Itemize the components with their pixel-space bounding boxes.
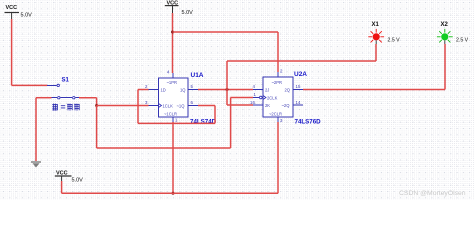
svg-text:U1A: U1A (191, 72, 204, 79)
flip-flop U1A 74LS74D (145, 70, 198, 123)
wire 1Q node down to 2K (226, 90, 228, 106)
pin 2 stub 1D (149, 89, 159, 91)
svg-text:15: 15 (296, 84, 301, 89)
wire 1Q node up (226, 61, 228, 90)
svg-text:2Q: 2Q (285, 87, 291, 92)
svg-text:2CLK: 2CLK (267, 95, 278, 100)
wire ~1Q feedback right (198, 105, 215, 107)
junction 1Q node (226, 88, 229, 91)
svg-text:5.0V: 5.0V (72, 178, 84, 184)
label key = space (CJK imitation strokes) (52, 104, 79, 111)
wire feedback into 1D (138, 89, 149, 91)
svg-text:1Q: 1Q (180, 87, 186, 92)
wire feedback down (214, 106, 216, 124)
svg-text:16: 16 (250, 100, 255, 105)
wire X2 up (444, 44, 446, 90)
svg-text:U2A: U2A (294, 71, 307, 78)
flip-flop U2A 74LS76D (250, 69, 303, 124)
svg-text:X2: X2 (441, 22, 449, 28)
wire VCC1 down (11, 19, 13, 85)
junction VCC2 node (171, 31, 174, 34)
svg-text:~2PR: ~2PR (272, 80, 282, 85)
svg-text:1D: 1D (161, 87, 166, 92)
wire into 2CLK pin (231, 97, 253, 99)
probe X1 (red) (368, 22, 400, 44)
wire bottom bus (62, 192, 278, 194)
pin 6 stub ~1Q (188, 105, 198, 107)
svg-text:2.5 V: 2.5 V (456, 38, 469, 44)
pin 4 top stub (172, 73, 174, 78)
clock triangle (159, 104, 162, 108)
wire across bottom to 2CLK branch (97, 147, 231, 149)
pin 1 stub 2CLK with bubble (253, 97, 259, 99)
wire VCC2 down to U1A ~1PR (172, 13, 174, 73)
wire to 1CLK (97, 105, 149, 107)
svg-text:~1Q: ~1Q (177, 103, 186, 108)
wire feedback across (138, 122, 215, 124)
wire down to U2A top pin (277, 32, 279, 72)
wire into 2K pin (227, 104, 253, 106)
wire clock node drop (96, 98, 98, 106)
svg-text:5.0V: 5.0V (182, 10, 194, 16)
ground wire from S1 common (36, 97, 52, 99)
svg-text:2.5 V: 2.5 V (388, 38, 401, 44)
power VCC3 (bottom) (55, 171, 83, 184)
wire down to ground (35, 98, 37, 161)
pin 2 top stub ~2PR (277, 72, 279, 77)
wire VCC3 down (61, 181, 63, 193)
pin 16 stub 2K (253, 104, 263, 106)
svg-text:~1CLR: ~1CLR (164, 111, 177, 116)
svg-text:S1: S1 (62, 78, 70, 84)
wire ~1CLR down (172, 122, 174, 193)
wire down from clock node (96, 106, 98, 149)
svg-text:2J: 2J (265, 87, 269, 92)
switch S1 (47, 78, 79, 99)
svg-text:VCC: VCC (6, 5, 18, 11)
power VCC1 (top left) (5, 5, 33, 19)
wire feedback up (137, 90, 139, 124)
ground (digital ground arrow) (31, 162, 41, 168)
svg-text:5.0V: 5.0V (21, 13, 33, 19)
probe X2 (green) (437, 22, 469, 44)
svg-text:74LS74D: 74LS74D (190, 119, 217, 126)
wire up to 2CLK (230, 98, 232, 149)
wire VCC1 to S1 throw (12, 84, 47, 86)
svg-text:CSDN @MorteyOlsen: CSDN @MorteyOlsen (399, 190, 466, 197)
junction clock node (95, 104, 98, 107)
clock triangle (263, 96, 266, 100)
pin 5 stub 1Q (188, 89, 198, 91)
wire ~2CLR down (277, 122, 279, 193)
svg-text:1CLK: 1CLK (163, 103, 174, 108)
wire S1 to clock node (79, 97, 97, 99)
pin 3 bottom stub ~2CLR (277, 117, 279, 122)
wire VCC2 node to U2A ~2PR (173, 31, 279, 33)
svg-text:X1: X1 (372, 22, 380, 28)
pin 1 bottom stub ~1CLR (172, 117, 174, 122)
pin 14 stub ~2Q (293, 104, 303, 106)
pin 15 stub 2Q (293, 89, 303, 91)
svg-text:74LS76D: 74LS76D (295, 119, 322, 126)
wire 2Q to X2 (303, 89, 445, 91)
wire X1 drop (375, 44, 377, 61)
svg-text:14: 14 (296, 100, 301, 105)
svg-text:2K: 2K (265, 103, 270, 108)
junction bottom VCC node (172, 192, 175, 195)
svg-text:~2Q: ~2Q (282, 103, 291, 108)
power VCC2 (top middle) (165, 1, 193, 17)
wire to X1 (227, 60, 376, 62)
svg-text:~2CLR: ~2CLR (269, 111, 282, 116)
pin 3 stub 1CLK (149, 105, 159, 107)
wire 1Q to 2J (198, 89, 253, 91)
svg-text:~1PR: ~1PR (167, 80, 177, 85)
pin 4 stub 2J (253, 89, 263, 91)
